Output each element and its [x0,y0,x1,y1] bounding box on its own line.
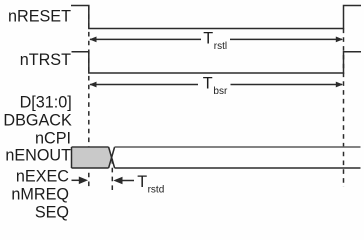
Trstl right arrowhead [336,37,343,43]
svg-text:nMREQ: nMREQ [11,185,69,203]
svg-text:T: T [203,30,213,48]
Trstl dimension arrow (left segment) [90,38,201,40]
dashed timing reference line at bus-valid point (x=112) [111,159,113,191]
svg-text:DBGACK: DBGACK [3,112,72,130]
svg-text:rstd: rstd [148,184,165,195]
dashed timing reference line at nRESET/nTRST falling edge (x=88.8) [88,6,90,191]
bus-change shaded region (all outputs changing), left block [72,147,112,168]
svg-text:nEXEC: nEXEC [16,168,69,186]
Tbsr left arrowhead [89,82,96,88]
svg-text:nTRST: nTRST [20,51,71,69]
bus region bottom border [72,167,109,169]
svg-text:nCPI: nCPI [35,130,71,148]
Trstl left arrowhead [89,37,96,43]
bus valid region top line (after crossover) [115,146,361,148]
Tbsr dimension arrow (left segment) [90,84,198,86]
bus crossover line (falling) [109,147,115,168]
nRESET waveform: high, fall, low, rise, high [71,6,361,29]
Trstd annotation arrow pointing left at bus-valid dashed line [121,180,134,182]
nTRST waveform: high, fall, low, rise, high [72,52,362,73]
Tbsr right arrowhead [336,82,343,88]
nEXEC annotation arrow pointing right at dashed line [72,179,81,181]
svg-text:T: T [137,173,147,191]
svg-text:SEQ: SEQ [35,203,69,221]
bus region left edge [71,147,73,168]
bus crossover line (rising) [109,147,115,168]
svg-text:T: T [203,75,213,93]
svg-text:rstl: rstl [214,41,227,52]
svg-text:nRESET: nRESET [8,8,71,26]
Tbsr dimension arrow (right segment) [231,84,343,86]
svg-text:bsr: bsr [213,86,228,97]
svg-text:nENOUT: nENOUT [5,147,71,165]
bus region top border [72,146,109,148]
dashed timing reference line at nRESET/nTRST rising edge (x=343.5) [343,29,345,188]
bus valid region bottom line (after crossover) [115,167,361,169]
svg-text:D[31:0]: D[31:0] [20,93,72,111]
Trstl dimension arrow (right segment) [230,38,342,40]
